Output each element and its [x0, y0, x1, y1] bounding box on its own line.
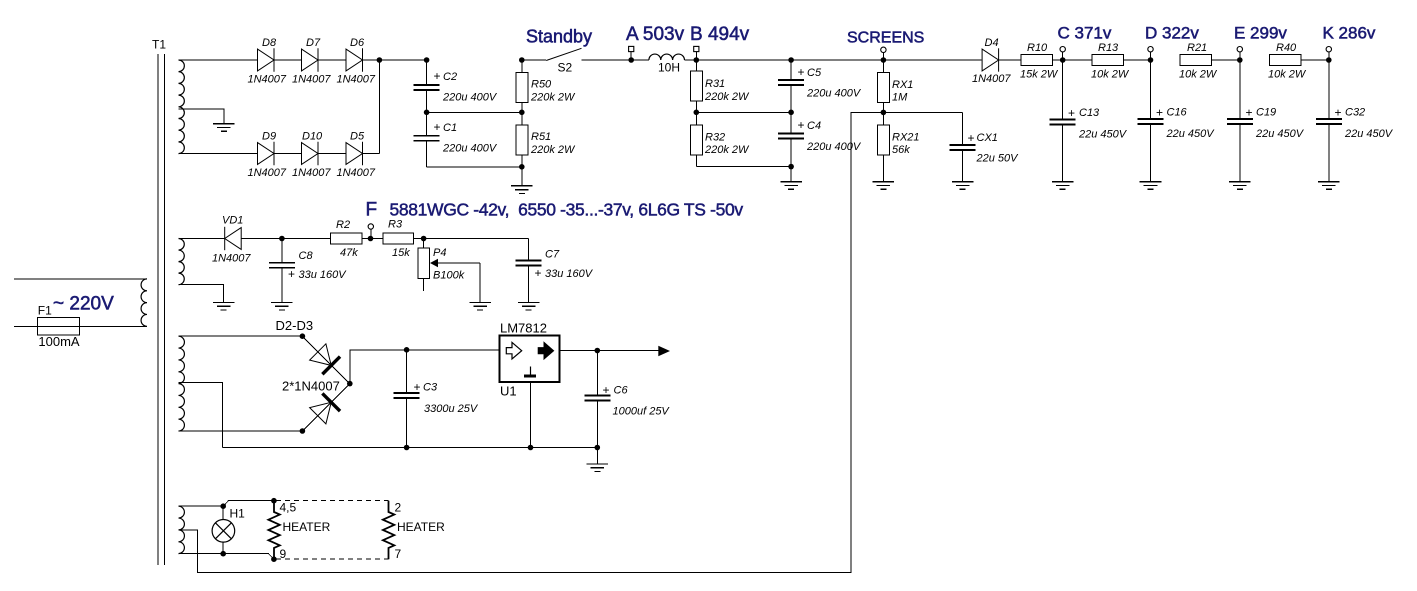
junction RX1/RX21	[881, 110, 887, 116]
wire terminal A lead	[630, 52, 632, 60]
junction D2 anode	[300, 333, 306, 339]
wire C32 bottom lead	[1328, 124, 1330, 182]
wire C5 top lead	[790, 60, 792, 80]
wire R31 top lead	[695, 60, 697, 71]
wire C2 to C1	[426, 90, 428, 136]
svg-text:SCREENS: SCREENS	[847, 30, 924, 47]
svg-text:S2: S2	[558, 61, 573, 75]
svg-text:RX21: RX21	[892, 132, 920, 144]
wire RX1 to RX21	[882, 102, 884, 125]
svg-text:47k: 47k	[340, 247, 358, 259]
svg-text:10k 2W: 10k 2W	[1268, 69, 1307, 81]
svg-text:+: +	[1068, 106, 1075, 120]
wire D4 to R10	[999, 59, 1021, 61]
wire A to choke	[631, 59, 649, 61]
wire C19 top lead	[1239, 60, 1241, 119]
wire SCREENS to D4	[883, 59, 981, 61]
svg-text:+: +	[798, 65, 805, 79]
wire R21 to node E	[1212, 59, 1240, 61]
wire RX21 bottom lead	[882, 155, 884, 181]
svg-text:~ 220V: ~ 220V	[53, 294, 114, 315]
potentiometer P4	[418, 248, 430, 279]
svg-text:10k 2W: 10k 2W	[1091, 69, 1130, 81]
svg-text:1N4007: 1N4007	[292, 167, 331, 179]
wire C6 top lead	[596, 351, 598, 396]
resistor R21	[1180, 55, 1212, 66]
svg-text:+: +	[798, 118, 805, 132]
wire C8 bottom lead	[281, 268, 283, 303]
svg-text:R31: R31	[705, 78, 725, 90]
svg-text:220u 400V: 220u 400V	[806, 88, 862, 100]
wire C16 bottom lead	[1150, 124, 1152, 182]
terminal B	[694, 46, 699, 51]
transformer bias secondary winding	[179, 239, 185, 285]
wire primary top	[14, 278, 147, 280]
capacitor C6	[584, 395, 610, 400]
wire D9 to D10	[274, 153, 302, 155]
wire C5 node to SCREENS node	[791, 59, 883, 61]
capacitor C8	[269, 263, 295, 268]
wire C13 bottom lead	[1062, 125, 1064, 182]
junction C5/C4	[788, 110, 794, 116]
junction top rail / riser	[377, 57, 383, 63]
svg-text:A 503v: A 503v	[626, 24, 685, 45]
svg-text:100mA: 100mA	[38, 334, 80, 349]
svg-text:1M: 1M	[892, 91, 908, 103]
svg-text:220k 2W: 220k 2W	[704, 91, 750, 103]
svg-text:D 322v: D 322v	[1145, 23, 1199, 42]
wire C4 bottom lead	[790, 139, 792, 182]
svg-text:D8: D8	[262, 37, 277, 49]
resistor R31	[690, 71, 702, 101]
wire D8 to D7	[274, 59, 302, 61]
wire C3 top lead	[406, 350, 408, 393]
wire H1 to heater pin 9	[223, 554, 274, 560]
capacitor C7	[516, 261, 542, 266]
wire P4 wiper down	[479, 263, 481, 302]
resistor R50	[516, 72, 528, 102]
resistor R32	[690, 125, 702, 155]
potentiometer P4 wiper arrow	[430, 259, 438, 268]
terminal K	[1326, 47, 1331, 52]
diode D2 symbol	[309, 343, 340, 374]
svg-text:220k 2W: 220k 2W	[530, 91, 576, 103]
svg-text:+: +	[1335, 106, 1342, 120]
junction node B	[694, 57, 700, 63]
svg-text:C5: C5	[807, 67, 822, 79]
ground RX21	[873, 182, 895, 190]
svg-text:C2: C2	[443, 71, 457, 83]
svg-text:220u 400V: 220u 400V	[806, 141, 862, 153]
svg-text:7: 7	[395, 547, 402, 561]
svg-text:R13: R13	[1098, 42, 1119, 54]
ground 12V rail	[587, 464, 609, 472]
resistor R13	[1092, 55, 1124, 66]
inductor choke 10H	[649, 54, 685, 60]
junction C4 bottom	[788, 164, 794, 170]
svg-text:D4: D4	[985, 37, 999, 49]
junction C8 top	[279, 236, 285, 242]
junction C3 bottom	[404, 445, 410, 451]
lamp H1	[212, 520, 235, 543]
wire B to C5 node	[696, 59, 791, 61]
capacitor C2	[414, 85, 440, 90]
wire U1 output	[560, 350, 659, 352]
capacitor C13	[1050, 120, 1076, 125]
wire terminal K lead	[1328, 52, 1330, 60]
junction R50/R51	[519, 110, 525, 116]
svg-text:HEATER: HEATER	[397, 520, 445, 534]
wire C32 top lead	[1328, 60, 1330, 119]
svg-text:R2: R2	[336, 219, 350, 231]
svg-text:C1: C1	[443, 122, 457, 134]
junction node F	[368, 236, 374, 242]
junction C6 top	[595, 348, 601, 354]
svg-text:22u 450V: 22u 450V	[1255, 128, 1305, 140]
svg-text:56k: 56k	[892, 144, 910, 156]
svg-text:C6: C6	[614, 385, 629, 397]
svg-text:H1: H1	[230, 507, 246, 521]
dashed wire heater link bottom	[276, 558, 389, 560]
svg-text:1N4007: 1N4007	[337, 167, 376, 179]
capacitor C3	[394, 393, 420, 398]
transformer heater secondary winding	[179, 506, 185, 553]
wire filter bottom	[427, 166, 522, 168]
junction C6 on rail	[595, 445, 601, 451]
junction node E	[1237, 57, 1243, 63]
svg-text:1N4007: 1N4007	[292, 74, 331, 86]
resistor R51	[516, 125, 528, 155]
transformer HV secondary winding	[179, 60, 185, 154]
svg-text:D10: D10	[302, 131, 323, 143]
capacitor C4	[778, 134, 804, 139]
svg-text:C3: C3	[423, 382, 438, 394]
wire terminal B lead	[695, 52, 697, 60]
wire bias winding to VD1	[179, 238, 225, 240]
svg-text:+: +	[1156, 106, 1163, 120]
diode D9	[258, 142, 275, 165]
wire R32 bottom to C4 bottom	[696, 166, 791, 168]
svg-text:220u 400V: 220u 400V	[442, 142, 498, 154]
wire switch to A node	[582, 59, 631, 61]
svg-text:R10: R10	[1027, 42, 1048, 54]
wire D6 to C2 node	[363, 59, 427, 61]
ground C4/C5	[780, 182, 802, 190]
wire R32 bottom lead	[695, 155, 697, 167]
junction SCREENS	[881, 57, 887, 63]
svg-text:VD1: VD1	[222, 215, 243, 227]
wire D2 diagonal	[302, 336, 349, 383]
U1 output arrow symbol	[538, 342, 553, 359]
wire H1 top lead	[222, 506, 224, 519]
svg-text:CX1: CX1	[977, 132, 998, 144]
diode D10	[302, 142, 319, 165]
svg-text:D7: D7	[306, 37, 321, 49]
wire R50 top lead	[521, 60, 523, 72]
U1 ground symbol	[530, 367, 532, 375]
wire R40 to node K	[1301, 59, 1329, 61]
junction H1 bottom	[220, 551, 226, 557]
resistor RX21	[877, 125, 889, 155]
wire C7 top lead	[528, 239, 530, 261]
svg-text:U1: U1	[500, 384, 517, 399]
svg-text:D6: D6	[350, 37, 365, 49]
svg-text:1000uf 25V: 1000uf 25V	[613, 406, 671, 418]
wire primary bottom left	[14, 325, 38, 327]
resistor R3	[383, 233, 413, 244]
svg-text:F: F	[366, 200, 378, 221]
wire terminal D lead	[1150, 52, 1152, 60]
svg-text:C8: C8	[299, 250, 314, 262]
ground C32	[1318, 182, 1340, 190]
svg-text:1N4007: 1N4007	[248, 74, 287, 86]
svg-text:K 286v: K 286v	[1323, 23, 1376, 42]
svg-text:C 371v: C 371v	[1058, 23, 1112, 42]
junction heater pin 4,5	[271, 498, 277, 504]
ground HV center tap	[213, 124, 235, 132]
junction node K	[1326, 57, 1332, 63]
svg-text:1N4007: 1N4007	[212, 253, 251, 265]
wire heater winding top to H1	[179, 505, 224, 507]
svg-text:220k 2W: 220k 2W	[530, 144, 576, 156]
junction heater pin 9	[271, 556, 277, 562]
ground P4 wiper	[469, 302, 491, 310]
switch S2 blade	[546, 48, 581, 60]
svg-text:2: 2	[395, 501, 402, 515]
wire C6 bottom lead	[596, 400, 598, 464]
wire D10 to D5	[318, 153, 346, 155]
svg-text:LM7812: LM7812	[500, 321, 547, 336]
wire R3 to C7	[413, 238, 528, 240]
junction D3 anode	[300, 428, 306, 434]
wire D3 diagonal	[302, 384, 349, 431]
svg-text:R51: R51	[531, 131, 551, 143]
svg-text:15k 2W: 15k 2W	[1020, 69, 1059, 81]
ground C7	[518, 302, 540, 310]
wire bias winding bottom	[179, 285, 224, 303]
svg-text:R3: R3	[388, 219, 403, 231]
terminal SCREENS	[881, 47, 886, 52]
wire terminal E lead	[1239, 52, 1241, 60]
wire P4 top lead	[423, 239, 425, 249]
transformer T1 core	[158, 54, 165, 565]
wire terminal C lead	[1062, 52, 1064, 60]
junction P4 top	[421, 236, 427, 242]
wire R2 to R3	[362, 238, 383, 240]
svg-text:C7: C7	[545, 249, 560, 261]
wire U1 ground pin	[530, 382, 532, 448]
output arrow 12V	[658, 346, 670, 356]
junction filter bottom	[519, 164, 525, 170]
diode D8	[258, 48, 275, 71]
wire to switch S2	[522, 59, 546, 61]
diode D5	[346, 142, 363, 165]
wire R51 bottom lead	[521, 155, 523, 186]
junction node C	[1060, 57, 1066, 63]
svg-text:1N4007: 1N4007	[248, 167, 287, 179]
wire R3132 mid to C5C4 mid	[696, 111, 791, 113]
svg-text:22u 450V: 22u 450V	[1344, 128, 1394, 140]
wire H1 to heater pin 4-5	[223, 501, 274, 507]
wire HV bottom to D9	[179, 153, 258, 155]
svg-text:T1: T1	[152, 38, 166, 52]
terminal F	[368, 224, 373, 229]
dashed wire heater link top	[276, 500, 389, 502]
svg-text:10H: 10H	[658, 61, 680, 75]
wire C1C2 mid to R5051 mid	[427, 111, 522, 113]
svg-text:+: +	[414, 380, 421, 394]
svg-text:5881WGC -42v, 6550 -35...-37v: 5881WGC -42v, 6550 -35...-37v, 6L6G TS -…	[390, 200, 744, 220]
svg-text:+: +	[535, 266, 542, 280]
diode D7	[302, 48, 319, 71]
wire C1 bottom lead	[426, 141, 428, 167]
svg-text:22u 50V: 22u 50V	[976, 153, 1020, 165]
svg-text:RX1: RX1	[892, 79, 913, 91]
svg-text:C13: C13	[1079, 107, 1100, 119]
junction C2 top	[424, 57, 430, 63]
wire R50 to R51	[521, 102, 523, 125]
wire C19 bottom lead	[1239, 124, 1241, 182]
capacitor C16	[1138, 119, 1164, 124]
svg-text:+: +	[968, 131, 975, 145]
wire CX1 top lead	[962, 112, 964, 145]
diode D3 symbol	[309, 393, 340, 424]
svg-text:HEATER: HEATER	[283, 520, 331, 534]
junction C3 top	[404, 347, 410, 353]
svg-text:22u 450V: 22u 450V	[1166, 128, 1216, 140]
wire H1 bottom lead	[222, 542, 224, 554]
transformer 12V secondary winding	[179, 336, 185, 431]
wire R10 to R13	[1053, 59, 1093, 61]
wire CX1 bottom lead	[962, 150, 964, 182]
svg-text:D9: D9	[262, 131, 276, 143]
wire P4 wiper	[438, 262, 480, 264]
wire RX1 top lead	[882, 60, 884, 72]
ground C16	[1140, 182, 1162, 190]
svg-text:33u 160V: 33u 160V	[299, 269, 348, 281]
wire C5 to C4	[790, 85, 792, 133]
resistor R10	[1021, 55, 1053, 66]
svg-text:3300u 25V: 3300u 25V	[424, 403, 479, 415]
svg-text:R40: R40	[1276, 42, 1297, 54]
svg-text:R21: R21	[1187, 42, 1207, 54]
wire riser to bottom diode row	[378, 60, 380, 154]
ground C8	[271, 302, 293, 310]
heater resistor 2	[383, 501, 394, 560]
junction node D	[1148, 57, 1154, 63]
wire HV top to D8	[179, 59, 258, 61]
capacitor C32	[1316, 119, 1342, 124]
resistor R2	[330, 233, 362, 244]
junction H1 top	[220, 503, 226, 509]
terminal D	[1148, 47, 1153, 52]
wire VD1 to R2	[241, 238, 330, 240]
wire RX junction to heater winding center tap	[179, 112, 884, 572]
resistor R40	[1269, 55, 1301, 66]
wire C7 bottom lead	[528, 266, 530, 303]
svg-text:Standby: Standby	[526, 27, 592, 47]
wire primary bottom right	[80, 325, 147, 327]
svg-text:E 299v: E 299v	[1234, 23, 1287, 42]
wire C8 top lead	[281, 239, 283, 263]
terminal A	[629, 46, 634, 51]
capacitor C19	[1227, 119, 1253, 124]
ground C19	[1229, 182, 1251, 190]
junction C1/C2	[424, 110, 430, 116]
diode D6	[346, 48, 363, 71]
wire D7 to D6	[318, 59, 346, 61]
svg-text:B100k: B100k	[433, 270, 465, 282]
wire 12V center tap	[179, 382, 223, 447]
junction U1 gnd on rail	[528, 445, 534, 451]
svg-text:R50: R50	[531, 79, 552, 91]
wire 12V bottom rail	[223, 447, 598, 449]
svg-text:R32: R32	[705, 131, 725, 143]
junction D2/D3 cathodes	[347, 381, 353, 387]
voltage regulator U1 LM7812	[500, 335, 560, 382]
svg-text:D5: D5	[350, 131, 365, 143]
diode VD1	[225, 227, 242, 250]
wire 12V winding top to D2	[179, 335, 303, 337]
svg-text:+: +	[288, 267, 295, 281]
svg-text:F1: F1	[38, 304, 52, 318]
ground CX1	[952, 182, 974, 190]
svg-text:P4: P4	[433, 247, 446, 259]
svg-text:C19: C19	[1256, 107, 1276, 119]
svg-text:220u 400V: 220u 400V	[442, 92, 498, 104]
svg-text:1N4007: 1N4007	[972, 73, 1011, 85]
svg-text:+: +	[603, 383, 610, 397]
wire R31 to R32	[695, 101, 697, 125]
wire D5 to riser	[363, 153, 380, 155]
heater resistor 1	[268, 501, 279, 560]
capacitor C1	[414, 136, 440, 141]
capacitor CX1	[950, 145, 976, 150]
wire C16 top lead	[1150, 60, 1152, 119]
wire 12V winding bottom to D3	[179, 430, 303, 432]
junction R50 top	[519, 57, 525, 63]
svg-text:1N4007: 1N4007	[337, 74, 376, 86]
terminal E	[1237, 47, 1242, 52]
svg-text:+: +	[434, 120, 441, 134]
svg-text:+: +	[1246, 106, 1253, 120]
svg-text:10k 2W: 10k 2W	[1179, 69, 1218, 81]
wire SCREENS terminal lead	[882, 53, 884, 61]
ground filter	[511, 186, 533, 194]
U1 input arrow symbol	[506, 342, 521, 359]
wire terminal F lead	[370, 229, 372, 238]
wire C3 bottom lead	[406, 398, 408, 447]
svg-text:+: +	[434, 69, 441, 83]
wire choke to B	[685, 59, 697, 61]
svg-text:B 494v: B 494v	[690, 24, 750, 45]
svg-text:C16: C16	[1167, 107, 1188, 119]
junction R31/R32	[694, 110, 700, 116]
junction C5 top	[788, 57, 794, 63]
svg-text:33u 160V: 33u 160V	[545, 268, 594, 280]
svg-text:220k 2W: 220k 2W	[704, 144, 750, 156]
svg-text:2*1N4007: 2*1N4007	[282, 379, 340, 394]
svg-text:C4: C4	[807, 120, 821, 132]
terminal C	[1060, 47, 1065, 52]
resistor RX1	[877, 72, 889, 102]
wire heater winding bottom to H1	[179, 553, 224, 555]
wire RX junction to CX1	[883, 111, 962, 113]
wire HV center tap	[179, 109, 224, 124]
junction node A	[628, 57, 634, 63]
svg-text:22u 450V: 22u 450V	[1078, 128, 1128, 140]
wire C13 top lead	[1062, 60, 1064, 120]
